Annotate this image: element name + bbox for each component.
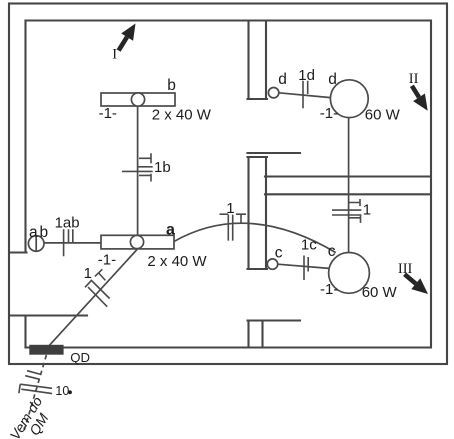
svg-text:1: 1 [363, 201, 371, 218]
svg-text:III: III [398, 261, 413, 277]
svg-text:60 W: 60 W [365, 106, 401, 123]
svg-text:c: c [275, 245, 283, 262]
svg-text:I: I [112, 47, 117, 63]
svg-text:1ab: 1ab [55, 215, 80, 232]
svg-text:1d: 1d [298, 67, 315, 84]
svg-text:1c: 1c [301, 236, 317, 253]
svg-text:c: c [328, 243, 336, 260]
svg-text:a: a [29, 224, 38, 241]
svg-text:60 W: 60 W [362, 284, 398, 301]
svg-text:2 x 40 W: 2 x 40 W [147, 253, 207, 270]
svg-text:-1-: -1- [99, 105, 117, 122]
svg-text:-1-: -1- [98, 252, 116, 269]
svg-text:a: a [166, 222, 175, 239]
svg-text:1: 1 [226, 200, 234, 217]
svg-text:-1-: -1- [320, 281, 338, 298]
svg-text:d: d [328, 71, 337, 88]
svg-text:-1-: -1- [320, 105, 338, 122]
svg-text:10: 10 [55, 384, 69, 398]
svg-text:1: 1 [84, 265, 92, 282]
svg-text:QD: QD [70, 350, 90, 365]
svg-text:b: b [40, 224, 49, 241]
svg-text:1b: 1b [154, 159, 171, 176]
svg-text:2 x 40 W: 2 x 40 W [152, 107, 212, 124]
svg-text:d: d [278, 71, 287, 88]
svg-text:II: II [409, 71, 419, 87]
svg-text:b: b [167, 77, 176, 94]
